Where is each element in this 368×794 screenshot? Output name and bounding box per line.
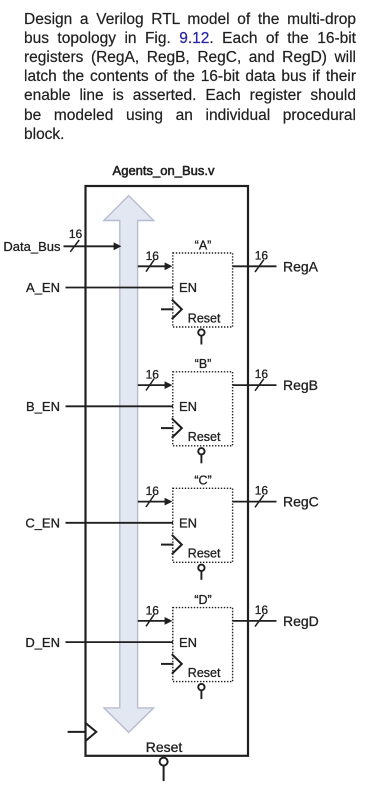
- active-low reset bubble of register D: [198, 684, 204, 690]
- wire: bus to register D data input: [138, 620, 166, 622]
- wire: A_EN enable line: [66, 287, 174, 289]
- svg-text:RegC: RegC: [283, 494, 319, 510]
- wire: register C output RegC: [233, 501, 277, 503]
- svg-text:C_EN: C_EN: [25, 516, 60, 531]
- data bus: vertical double-headed arrow: [104, 196, 154, 733]
- wire: bus to register C data input: [138, 501, 166, 503]
- svg-text:16: 16: [255, 367, 269, 381]
- active-low reset bubble on module: [160, 758, 168, 766]
- svg-text:“C”: “C”: [194, 474, 211, 488]
- svg-text:“A”: “A”: [195, 238, 212, 252]
- svg-text:16: 16: [255, 603, 269, 617]
- clock input wire of register A: [161, 308, 174, 310]
- svg-text:RegD: RegD: [283, 613, 319, 629]
- svg-text:Agents_on_Bus.v: Agents_on_Bus.v: [113, 163, 215, 178]
- bus-width slash on A input: [146, 260, 154, 272]
- svg-text:EN: EN: [179, 516, 197, 531]
- clock edge chevron of register A: [172, 300, 182, 320]
- svg-text:B_EN: B_EN: [26, 399, 60, 414]
- reset stub wire of register C: [200, 572, 202, 580]
- register B dotted box: [173, 372, 233, 446]
- reset stub wire of register A: [200, 336, 202, 344]
- svg-text:Reset: Reset: [188, 666, 221, 680]
- register D dotted box: [173, 608, 233, 682]
- wire: register B output RegB: [233, 384, 277, 386]
- svg-text:16: 16: [146, 484, 160, 498]
- active-low reset bubble of register B: [198, 448, 204, 454]
- module boundary box Agents_on_Bus: [86, 186, 249, 756]
- bus-width slash on D input: [146, 614, 154, 626]
- clock input wire of register B: [161, 427, 174, 429]
- bus-width slash on Data_Bus: [70, 240, 79, 252]
- reset stub wire of register D: [200, 691, 202, 699]
- register C dotted box: [173, 488, 233, 562]
- svg-text:Data_Bus: Data_Bus: [3, 239, 61, 254]
- wire: Data_Bus input to bus: [64, 245, 116, 247]
- svg-text:“B”: “B”: [195, 357, 212, 371]
- svg-text:RegA: RegA: [283, 258, 319, 274]
- clock edge chevron of register D: [172, 654, 182, 674]
- bus-width slash on RegC output: [255, 495, 264, 507]
- svg-text:16: 16: [146, 249, 160, 263]
- wire: D_EN enable line: [66, 641, 174, 643]
- wire: bus to register A data input: [138, 265, 166, 267]
- bus-width slash on RegB output: [255, 379, 264, 391]
- svg-text:EN: EN: [179, 280, 197, 295]
- wire: B_EN enable line: [66, 405, 174, 407]
- svg-text:16: 16: [146, 603, 160, 617]
- bus-width slash on RegD output: [255, 614, 264, 626]
- svg-text:RegB: RegB: [283, 377, 318, 393]
- svg-text:Reset: Reset: [188, 430, 221, 444]
- bus-width slash on RegA output: [255, 260, 264, 272]
- wire: bus to register B data input: [138, 384, 166, 386]
- wire: register D output RegD: [233, 620, 277, 622]
- svg-text:D_EN: D_EN: [25, 635, 60, 650]
- active-low reset bubble of register C: [198, 565, 204, 571]
- svg-text:16: 16: [69, 227, 83, 241]
- svg-text:16: 16: [146, 368, 160, 382]
- wire: C_EN enable line: [66, 522, 174, 524]
- reset stub wire of register B: [200, 455, 202, 463]
- svg-text:Reset: Reset: [188, 547, 221, 561]
- svg-text:A_EN: A_EN: [26, 280, 60, 295]
- clock edge chevron of register C: [172, 535, 182, 555]
- bus-width slash on C input: [146, 495, 154, 507]
- wire: reset stub below module: [163, 766, 165, 781]
- wire: bottom clock input: [68, 731, 86, 733]
- clock input wire of register D: [161, 663, 174, 665]
- register A dotted box: [173, 253, 233, 327]
- clock input wire of register C: [161, 544, 174, 546]
- svg-text:Reset: Reset: [188, 311, 221, 325]
- clock edge chevron at module boundary: [85, 723, 96, 741]
- wire: register A output RegA: [233, 265, 277, 267]
- active-low reset bubble of register A: [198, 329, 204, 335]
- svg-text:EN: EN: [179, 399, 197, 414]
- svg-text:Reset: Reset: [146, 739, 183, 755]
- svg-text:16: 16: [255, 248, 269, 262]
- svg-text:EN: EN: [179, 635, 197, 650]
- bus-width slash on B input: [146, 379, 154, 391]
- clock edge chevron of register B: [172, 418, 182, 438]
- svg-text:“D”: “D”: [194, 593, 211, 607]
- svg-text:16: 16: [255, 484, 269, 498]
